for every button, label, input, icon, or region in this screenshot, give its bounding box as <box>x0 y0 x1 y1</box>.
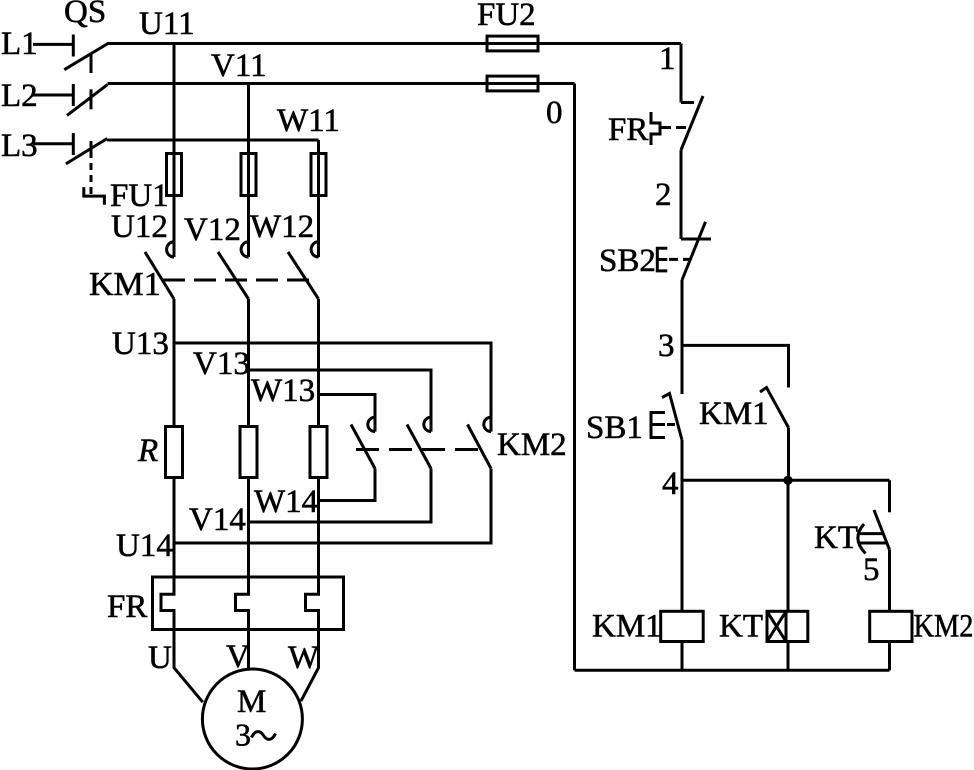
wire node 2 segment <box>680 150 683 239</box>
wire U11 phase bus <box>107 42 681 45</box>
switch QS pole 2 blade <box>67 85 108 116</box>
svg-text:W12: W12 <box>250 209 314 245</box>
wire KM2 branch corner <box>888 480 891 512</box>
svg-text:R: R <box>137 433 158 469</box>
svg-text:SB2: SB2 <box>599 243 656 279</box>
wire U phase U12-U13-R <box>173 299 176 427</box>
svg-text:W: W <box>288 640 320 676</box>
fuse FU2 upper element <box>487 36 538 51</box>
wire V phase R to FR and motor <box>236 478 249 670</box>
pushbutton SB2 actuator <box>657 248 667 271</box>
pushbutton SB1 actuator dashed link <box>667 423 680 426</box>
pushbutton SB1 actuator <box>651 413 665 438</box>
wire node 3 horizontal to KM1 aux <box>682 345 789 387</box>
motor M circle <box>202 669 302 769</box>
wire KT contact to KM2 coil <box>888 550 891 612</box>
contactor KM1 main pole 3 blade <box>288 252 319 299</box>
pushbutton SB2 fixed bar <box>681 238 711 241</box>
wire KM1 aux bottom lead <box>787 428 790 481</box>
svg-text:4: 4 <box>662 466 679 502</box>
fuse FU1 element V <box>241 154 256 196</box>
coil KT with crossed section <box>767 611 808 641</box>
contactor KM2 linkage dashed <box>356 448 480 451</box>
svg-text:W13: W13 <box>251 373 315 409</box>
relay FR NC contact blade <box>681 96 703 150</box>
wire W11 phase bus <box>107 139 318 142</box>
switch QS pole 1 blade <box>64 43 108 69</box>
svg-text:KM2: KM2 <box>497 427 567 463</box>
relay FR actuator symbol <box>651 112 660 145</box>
svg-text:3: 3 <box>235 717 251 753</box>
contactor KM1 auxiliary contact blade <box>760 388 789 428</box>
wire KT coil bottom lead <box>787 642 790 671</box>
svg-text:V14: V14 <box>189 502 246 538</box>
svg-text:KM2: KM2 <box>914 609 974 645</box>
contactor KM1 main pole 2 blade <box>218 252 249 299</box>
svg-text:U13: U13 <box>112 326 169 362</box>
switch QS pole 2 fixed contact <box>72 84 75 106</box>
wire W phase R to FR and motor <box>301 478 319 702</box>
time relay KT delay semicircle <box>858 524 866 553</box>
pushbutton SB2 actuator dashed link <box>669 258 691 261</box>
fuse FU1 element W <box>311 154 326 196</box>
wire W phase vertical W11-W12 <box>317 140 320 257</box>
svg-text:KM1: KM1 <box>592 609 662 645</box>
svg-text:0: 0 <box>546 95 563 131</box>
svg-text:KM1: KM1 <box>699 396 769 432</box>
wire KM2 pole 3 bottom to U14 <box>174 469 491 544</box>
svg-text:KT: KT <box>719 609 763 645</box>
wire KM2 pole 1 bottom to W14 <box>319 469 376 501</box>
svg-text:3: 3 <box>658 328 675 364</box>
wire control left bus 0 <box>573 84 576 671</box>
contactor KM1 main pole 1 fixed hook <box>167 242 174 257</box>
contactor KM2 pole 3 fixed hook <box>484 417 491 431</box>
contactor KM2 pole 2 blade <box>407 425 431 469</box>
svg-text:U12: U12 <box>111 209 168 245</box>
coil KM2 <box>870 611 912 641</box>
svg-text:L2: L2 <box>1 78 38 114</box>
switch QS pole 3 blade <box>66 139 107 164</box>
wire W phase W12-W13-R <box>317 299 320 427</box>
svg-text:M: M <box>237 684 266 720</box>
wire V phase V12-V13-R <box>247 299 250 427</box>
svg-text:SB1: SB1 <box>586 410 643 446</box>
svg-text:L3: L3 <box>1 128 38 164</box>
wire KM2 coil bottom lead <box>888 642 891 671</box>
contactor KM2 pole 3 blade <box>468 425 492 469</box>
wire KT coil branch <box>787 480 790 611</box>
time relay KT delayed contact blade <box>874 510 890 550</box>
svg-text:KM1: KM1 <box>89 266 161 303</box>
svg-text:U14: U14 <box>116 528 173 564</box>
switch QS pole 1 fixed contact <box>72 35 75 57</box>
wire control bottom bus <box>575 669 890 672</box>
wire U phase R to FR and motor <box>161 478 203 703</box>
wire node 4 horizontal <box>682 479 890 482</box>
wire L3 lead <box>33 142 73 145</box>
svg-text:W11: W11 <box>277 103 340 139</box>
contactor KM2 pole 1 blade <box>351 425 375 469</box>
fuse FU1 element U <box>167 154 182 196</box>
contactor KM1 main pole 2 fixed hook <box>241 242 248 257</box>
wire KM2 pole 2 bottom to V14 <box>249 469 432 523</box>
svg-text:FU2: FU2 <box>477 0 536 33</box>
wire node V13 to KM2 pole 2 top <box>249 370 432 432</box>
svg-text:2: 2 <box>655 177 672 213</box>
svg-text:FR: FR <box>107 589 147 625</box>
resistor R phase V <box>240 427 257 478</box>
time relay KT delay bar lower <box>858 542 888 545</box>
wire U phase vertical U11-U12 <box>173 44 176 258</box>
time relay KT delay bar upper <box>859 532 884 535</box>
wire node W13 to KM2 pole 1 top <box>319 395 376 432</box>
svg-text:L1: L1 <box>1 26 38 62</box>
svg-text:W14: W14 <box>254 484 318 520</box>
svg-text:FR: FR <box>608 112 648 148</box>
wire SB1 to KM1 coil <box>681 440 684 611</box>
wire L1 lead <box>33 43 73 46</box>
resistor R phase U <box>166 427 183 478</box>
relay FR NC contact fixed bar <box>681 101 694 104</box>
svg-text:1: 1 <box>659 41 676 77</box>
wire V phase vertical V11-V12 <box>247 84 250 258</box>
wire node 3 segment <box>681 280 684 394</box>
svg-text:V11: V11 <box>211 48 267 84</box>
svg-text:KT: KT <box>814 520 858 556</box>
coil KM1 <box>661 611 704 641</box>
resistor R phase W <box>310 427 327 478</box>
svg-text:5: 5 <box>863 552 880 588</box>
contactor KM2 pole 2 fixed hook <box>424 417 431 431</box>
switch QS mechanical linkage <box>84 55 105 205</box>
relay FR actuator dashed link <box>661 126 690 129</box>
wire KM1 coil bottom lead <box>681 642 684 671</box>
junction node 4 dot <box>783 476 792 485</box>
switch QS pole 3 fixed contact <box>72 133 75 155</box>
wire control branch down from U11 <box>680 44 683 103</box>
wire V11 phase bus <box>108 82 575 85</box>
contactor KM2 pole 1 fixed hook <box>368 417 375 431</box>
wire node U13 to KM2 pole 3 top <box>174 343 491 432</box>
contactor KM1 main pole 1 blade <box>145 252 174 299</box>
fuse FU2 lower element <box>487 76 538 91</box>
svg-text:QS: QS <box>64 0 106 30</box>
tilde of 3~ motor label <box>252 732 276 740</box>
contactor KM1 main linkage dashed <box>163 279 318 282</box>
wire L2 lead <box>33 94 73 97</box>
svg-text:V13: V13 <box>193 346 250 382</box>
svg-text:U: U <box>148 640 172 676</box>
svg-text:V: V <box>226 639 250 675</box>
svg-text:U11: U11 <box>139 6 195 42</box>
contactor KM1 main pole 3 fixed hook <box>311 242 318 257</box>
pushbutton SB2 blade <box>682 222 706 280</box>
pushbutton SB1 blade <box>662 394 682 441</box>
svg-text:V12: V12 <box>184 212 241 248</box>
thermal relay FR heater box <box>153 577 344 630</box>
